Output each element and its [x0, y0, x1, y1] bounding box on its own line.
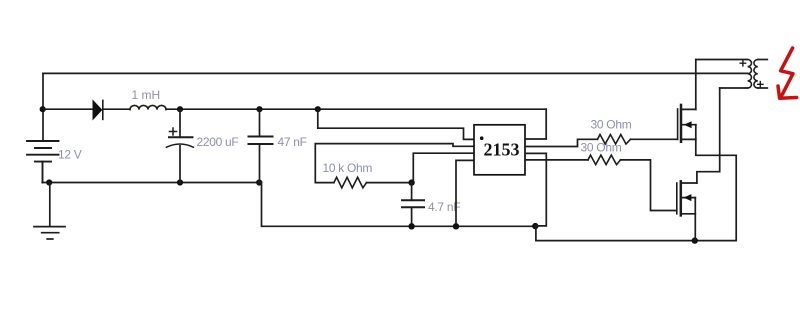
transistor Q2 lower MOSFET — [677, 88, 720, 241]
svg-text:47 nF: 47 nF — [278, 135, 307, 149]
node after inductor — [177, 106, 183, 112]
svg-text:2200 uF: 2200 uF — [197, 135, 239, 149]
resistor R1 10 k Ohm — [334, 177, 367, 188]
wire gate resistor to lower FET gate — [621, 160, 677, 211]
wire CT feed to pin 3 — [413, 153, 474, 182]
polarity plus secondary — [758, 82, 763, 87]
wire secondary bottom lead — [758, 87, 768, 89]
wire left vertical battery top — [42, 73, 44, 141]
wire resistor to CT node — [367, 182, 412, 184]
svg-text:12 V: 12 V — [58, 148, 82, 162]
wire bottom rail from battery — [42, 182, 259, 184]
resistor R3 30 Ohm lower — [588, 155, 621, 165]
wire main mid rail anode segment — [43, 108, 93, 110]
node 4.7nF bottom — [408, 223, 414, 229]
resistor R2 30 Ohm upper — [598, 135, 631, 145]
wire COM pin 4 to lower rail — [456, 160, 474, 226]
wire gate resistor to upper FET gate — [631, 138, 678, 140]
node CT junction — [408, 179, 414, 185]
capacitor C1 2200 uF — [167, 109, 194, 182]
ground — [34, 227, 65, 239]
svg-text:30 Ohm: 30 Ohm — [581, 141, 622, 155]
wire primary bottom lead — [720, 87, 748, 89]
svg-text:10 k Ohm: 10 k Ohm — [323, 161, 373, 175]
node COM on rail — [453, 223, 459, 229]
diode D1 — [93, 100, 130, 119]
node lower FET source junction — [692, 237, 698, 243]
node 2200uF bottom — [177, 179, 183, 185]
wire top +12V rail — [43, 72, 748, 74]
wire VS pin to lower rail — [525, 153, 546, 226]
svg-text:1 mH: 1 mH — [132, 88, 161, 102]
capacitor C2 47 nF — [249, 109, 273, 182]
node battery top junction — [40, 106, 46, 112]
battery BT1 12V — [27, 141, 59, 183]
capacitor C3 4.7 nF — [402, 183, 424, 227]
svg-text:2153: 2153 — [484, 140, 520, 160]
wire ground stem — [49, 183, 51, 227]
IC pin1 mark — [480, 136, 484, 140]
transformer T1 — [696, 60, 768, 89]
node VCC tap — [315, 106, 321, 112]
wire RT loop to pin 2 — [315, 144, 474, 183]
transistor Q1 upper MOSFET — [678, 60, 737, 156]
wire VCC feed from rail to pin 1 — [318, 109, 474, 139]
wire VB feed from mid rail — [525, 109, 546, 139]
wire primary top lead — [696, 59, 748, 61]
node lower rail end — [532, 223, 538, 229]
IC U1 2153 — [474, 125, 525, 175]
wire secondary top lead — [758, 59, 768, 61]
secondary winding — [754, 60, 758, 88]
node 47nF bottom — [256, 179, 262, 185]
wire HO pin to gate resistor — [525, 139, 597, 146]
polarity plus primary — [740, 61, 745, 66]
wire mid rail after inductor — [166, 108, 546, 110]
node battery bottom junction — [46, 179, 52, 185]
primary winding — [748, 60, 752, 88]
wire bottom source rail — [536, 155, 736, 240]
wire LO pin to gate resistor — [525, 159, 588, 161]
svg-text:30 Ohm: 30 Ohm — [591, 118, 632, 132]
inductor L1 1 mH — [130, 105, 166, 109]
wire 47nF bottom to lower rail — [259, 183, 535, 227]
node 47nF top — [256, 106, 262, 112]
arrow high voltage bolt — [778, 48, 797, 98]
